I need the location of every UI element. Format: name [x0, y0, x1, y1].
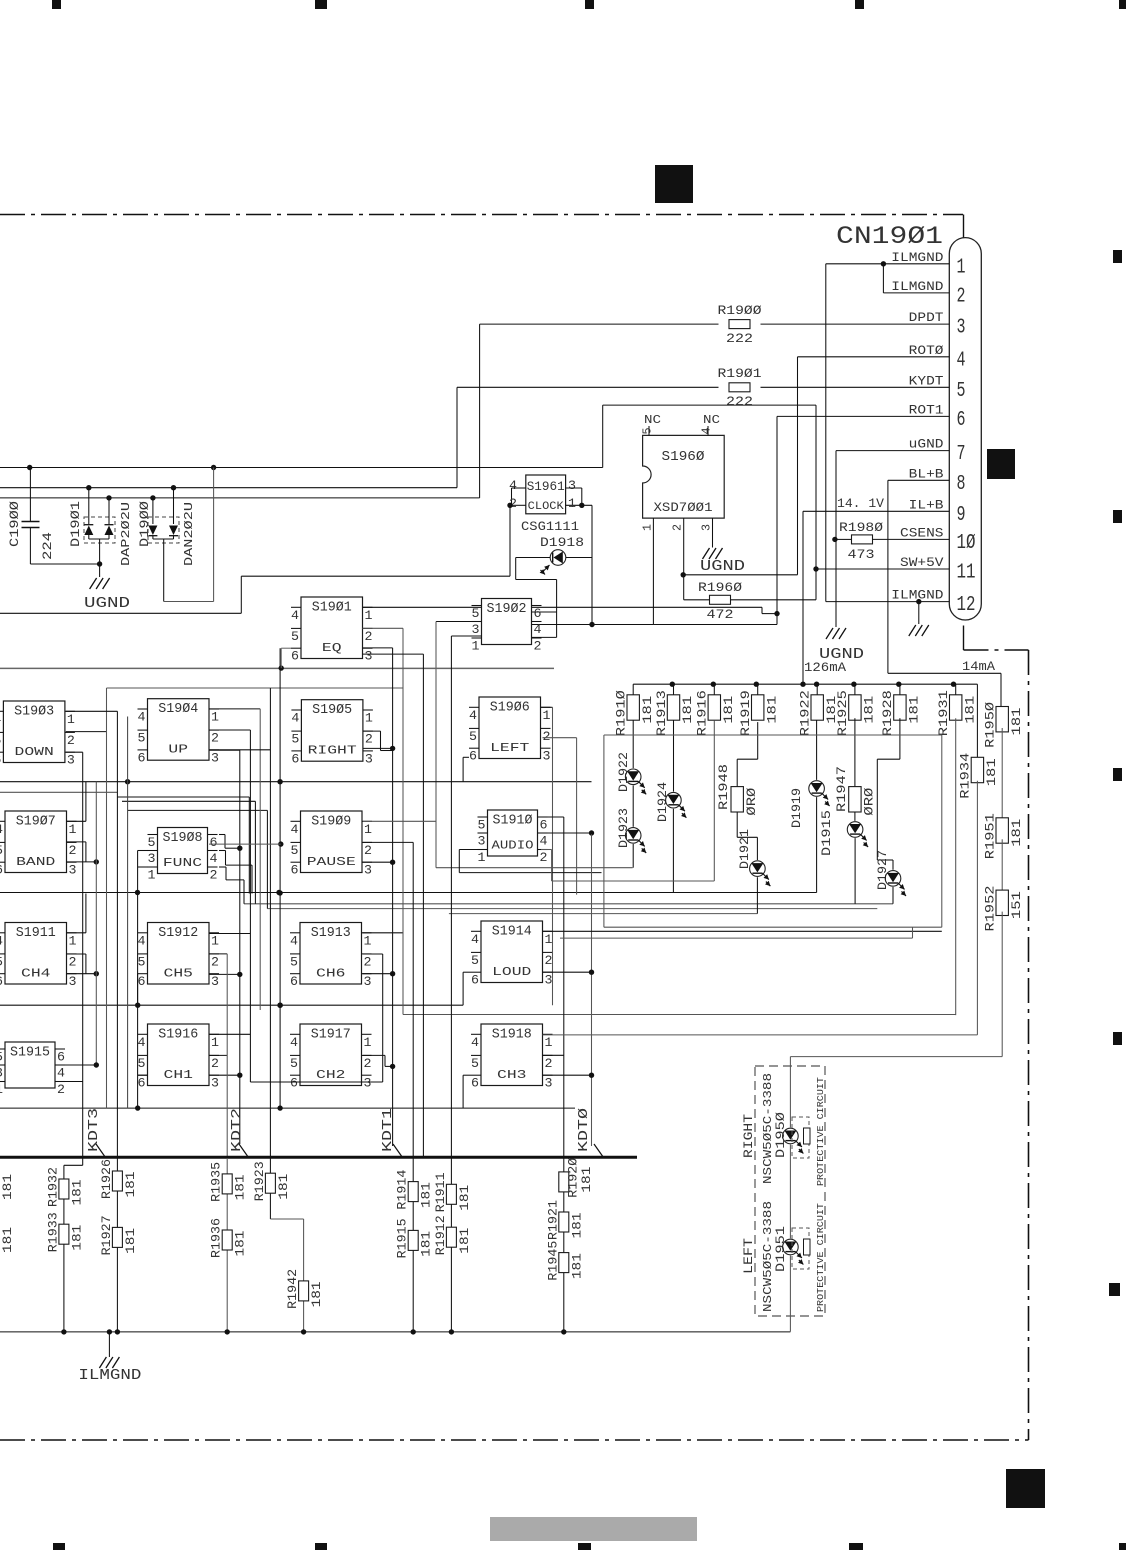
svg-text:S1914: S1914	[492, 925, 532, 940]
svg-text:3: 3	[478, 834, 486, 849]
svg-text:3: 3	[69, 863, 77, 878]
S1961 pin 2	[507, 496, 526, 511]
svg-text:5: 5	[291, 732, 299, 747]
svg-text:5: 5	[138, 954, 146, 969]
resistor R1911 (181)	[433, 1172, 472, 1212]
wire row rail y=913.6	[449, 913, 758, 915]
protective resistor (left)	[792, 1228, 810, 1269]
svg-text:R192Ø: R192Ø	[566, 1158, 581, 1198]
wire row rail y=688	[107, 687, 404, 689]
svg-text:R1928: R1928	[880, 690, 895, 736]
svg-text:4: 4	[290, 1035, 298, 1050]
svg-text:CH6: CH6	[316, 968, 346, 981]
svg-text:6: 6	[0, 863, 3, 878]
wire R1920/R1921/R1945 column	[561, 1158, 566, 1335]
svg-text:4: 4	[138, 1035, 146, 1050]
svg-text:3: 3	[700, 524, 714, 531]
svg-text:181: 181	[681, 696, 695, 724]
svg-text:1: 1	[0, 1082, 3, 1097]
ground UGND (top-left)	[84, 564, 130, 612]
CN1901 pin 5 (KYDT)	[909, 374, 966, 403]
S1961 pin 3	[566, 478, 582, 505]
wire S1914 pin1 rail	[543, 930, 942, 932]
resistor R1925 (181)	[835, 684, 876, 736]
wire column x=280.1	[209, 648, 283, 1108]
wire IL+B (pin 9) / 126mA feed	[803, 511, 949, 684]
svg-text:181: 181	[124, 1228, 138, 1254]
wire S1917 pin2 elbow	[363, 1055, 385, 1066]
wire S1907 pin2/pin3 to column	[67, 842, 99, 865]
svg-text:6: 6	[540, 818, 548, 833]
switch S1918 (CH3)	[471, 1024, 553, 1091]
svg-text:181: 181	[70, 1225, 84, 1251]
svg-text:2: 2	[671, 524, 685, 531]
svg-text:KDT2: KDT2	[230, 1108, 245, 1152]
diode pair D1900 (DAN202U)	[137, 468, 214, 602]
svg-text:R1945: R1945	[545, 1241, 560, 1281]
svg-text:ILMGND: ILMGND	[78, 1367, 141, 1384]
svg-text:1: 1	[211, 710, 219, 725]
resistor R1910 (181)	[614, 684, 655, 736]
svg-text:R1936: R1936	[209, 1218, 224, 1258]
switch S1902	[472, 599, 542, 654]
svg-text:5: 5	[957, 380, 966, 403]
svg-text:1: 1	[478, 850, 486, 865]
wire S1913 pin1 stub	[363, 932, 404, 934]
svg-text:R1916: R1916	[695, 690, 710, 736]
svg-text:IL+B: IL+B	[909, 498, 944, 512]
svg-text:R1933: R1933	[45, 1212, 60, 1252]
svg-text:CH2: CH2	[316, 1069, 346, 1082]
svg-text:R1912: R1912	[433, 1215, 448, 1255]
resistor R1923 (181)	[252, 1161, 291, 1201]
resistor R1945 (181)	[545, 1241, 584, 1281]
capacitor C1900 (224)	[7, 468, 100, 565]
svg-text:4: 4	[471, 1035, 479, 1050]
wire BL+B (pin 8) / 14mA feed	[888, 480, 1001, 706]
LED D1919	[789, 720, 830, 828]
svg-text:181: 181	[570, 1253, 584, 1279]
svg-text:R1915: R1915	[395, 1218, 410, 1258]
svg-text:D1919: D1919	[789, 788, 804, 828]
svg-text:PROTECTIVE CIRCUIT: PROTECTIVE CIRCUIT	[815, 1203, 826, 1312]
svg-text:6: 6	[957, 409, 966, 432]
svg-text:3: 3	[545, 1076, 553, 1091]
svg-text:2: 2	[365, 629, 373, 644]
wire S1910 pin1 rail	[459, 850, 601, 873]
svg-text:151: 151	[1010, 891, 1024, 919]
S1961 pin 1	[566, 496, 592, 511]
svg-text:R1914: R1914	[395, 1169, 410, 1209]
wire row rail y=1108.1	[0, 1105, 575, 1110]
wire column x=563.8 (S1910 pin6 to R1920)	[541, 817, 564, 1158]
wire R1923/R1942 column	[270, 1158, 306, 1335]
CN1901 pin 3 (DPDT)	[909, 311, 966, 340]
svg-text:5: 5	[472, 606, 480, 621]
svg-text:5: 5	[291, 629, 299, 644]
switch S1913 (CH6)	[290, 923, 372, 990]
wire row rail y=792.3	[0, 791, 117, 793]
svg-text:S1915: S1915	[10, 1046, 50, 1061]
svg-text:BL+B: BL+B	[909, 467, 944, 481]
wire LED frame loop	[560, 718, 956, 1015]
svg-text:LEFT: LEFT	[490, 742, 529, 755]
svg-text:D1918: D1918	[540, 535, 584, 550]
wire column x=96.3	[55, 782, 99, 1068]
keyboard data bus (heavy)	[0, 1156, 637, 1159]
switch S1908 (FUNC)	[148, 828, 218, 883]
wire column x=576.6	[543, 738, 577, 895]
svg-text:3: 3	[364, 974, 372, 989]
svg-text:S1961: S1961	[527, 479, 565, 494]
svg-text:S19Ø3: S19Ø3	[14, 705, 54, 720]
svg-text:S1913: S1913	[311, 926, 351, 941]
svg-text:R1927: R1927	[99, 1215, 114, 1255]
resistor R1914 (181)	[395, 1169, 434, 1209]
switch S1901 (EQ)	[291, 597, 373, 664]
svg-text:181: 181	[722, 696, 736, 724]
wire row rail y=668	[0, 648, 554, 671]
wire S1905 pin2 elbow	[363, 731, 393, 750]
svg-text:S1917: S1917	[311, 1028, 351, 1043]
LED D1915	[819, 810, 868, 904]
CN1901 pin 4 (ROT0)	[909, 344, 966, 373]
svg-text:6: 6	[291, 649, 299, 664]
wire column x=127.6	[127, 717, 129, 1109]
svg-text:S19Ø6: S19Ø6	[490, 701, 530, 716]
svg-text:ILMGND: ILMGND	[891, 280, 943, 294]
svg-text:181: 181	[1, 1227, 15, 1253]
svg-text:R1913: R1913	[654, 690, 669, 736]
svg-text:KDT3: KDT3	[87, 1108, 102, 1152]
svg-text:4: 4	[0, 822, 3, 837]
svg-text:D19ØØ: D19ØØ	[137, 501, 152, 547]
svg-text:14. 1V: 14. 1V	[837, 497, 885, 511]
svg-text:S191Ø: S191Ø	[493, 814, 533, 829]
wire net DPDT (pin3) to left rail	[0, 324, 949, 500]
wire S1909 pin1 to D1923 rail	[363, 821, 633, 867]
svg-text:224: 224	[40, 532, 55, 560]
svg-text:C19ØØ: C19ØØ	[7, 501, 22, 547]
svg-text:CLOCK: CLOCK	[528, 501, 564, 513]
resistor R1913 (181)	[654, 684, 695, 736]
svg-text:ROT1: ROT1	[909, 403, 944, 417]
resistor R1916 (181)	[695, 684, 736, 736]
switch S1907 (BAND)	[0, 811, 77, 878]
svg-text:3: 3	[0, 1066, 3, 1081]
ground ILMGND (pin 12)	[909, 602, 929, 636]
switch S1915	[0, 1042, 65, 1097]
svg-text:2: 2	[69, 843, 77, 858]
svg-text:1: 1	[365, 608, 373, 623]
wire row rail y=1005.2	[0, 1003, 463, 1008]
resistor R1960 (472)	[684, 569, 816, 622]
diode pair D1901 (DAP202U)	[68, 488, 133, 567]
svg-text:6: 6	[0, 974, 3, 989]
svg-text:12: 12	[957, 594, 976, 617]
svg-text:181: 181	[641, 696, 655, 724]
svg-text:DAP2Ø2U: DAP2Ø2U	[119, 502, 133, 566]
resistor R1928 (181)	[880, 684, 921, 736]
svg-text:R1935: R1935	[209, 1162, 224, 1202]
svg-text:2: 2	[534, 639, 542, 654]
wire column x=414.1 (to R1914)	[363, 842, 413, 1158]
switch S1916 (CH1)	[138, 1024, 220, 1091]
svg-text:2: 2	[67, 733, 75, 748]
svg-text:1: 1	[568, 496, 576, 511]
connector CN1901	[836, 222, 981, 620]
wire column x=137.6	[138, 851, 148, 1109]
S1960 pin 5 (NC)	[641, 414, 662, 435]
svg-text:1: 1	[543, 708, 551, 723]
resistor R1980 (473)	[836, 520, 949, 562]
svg-text:S19Ø1: S19Ø1	[312, 601, 352, 616]
svg-text:KDTØ: KDTØ	[577, 1108, 592, 1152]
svg-text:6: 6	[210, 835, 218, 850]
svg-text:UGND: UGND	[700, 559, 745, 575]
resistor R1950 (181)	[983, 702, 1024, 818]
svg-text:6: 6	[469, 749, 477, 764]
svg-text:S1912: S1912	[158, 926, 198, 941]
svg-text:R1952: R1952	[983, 886, 998, 932]
svg-text:126mA: 126mA	[804, 661, 847, 675]
CN1901 pin 10 (CSENS)	[900, 526, 976, 555]
svg-text:222: 222	[726, 394, 753, 409]
svg-text:NC: NC	[644, 414, 661, 427]
switch S1904 (UP)	[138, 699, 220, 766]
svg-text:5: 5	[478, 818, 486, 833]
svg-text:S19Ø7: S19Ø7	[16, 815, 56, 830]
LED D1923	[616, 785, 646, 867]
LED D1922	[616, 720, 646, 794]
svg-text:3: 3	[365, 649, 373, 664]
svg-text:181: 181	[234, 1231, 248, 1257]
svg-text:181: 181	[570, 1213, 584, 1239]
LED D1918	[516, 535, 592, 637]
svg-text:3: 3	[957, 317, 966, 340]
wire R1916 branch (to S1910 pin2)	[541, 720, 714, 881]
wire S1901 pin1 to ROT1 net	[363, 607, 778, 613]
svg-text:2: 2	[211, 731, 219, 746]
wire R1932/R1933 column	[61, 1158, 82, 1335]
wire column x=106.5	[66, 688, 107, 1108]
svg-text:R1921: R1921	[545, 1200, 560, 1240]
wire column x=552.5	[541, 707, 553, 1005]
svg-text:4: 4	[700, 428, 714, 435]
svg-text:4: 4	[291, 822, 299, 837]
svg-text:D1921: D1921	[737, 829, 752, 869]
svg-text:181: 181	[985, 758, 999, 786]
svg-text:2: 2	[211, 954, 219, 969]
svg-text:D19Ø1: D19Ø1	[68, 501, 83, 547]
wire S1902 pin3 to column	[436, 622, 482, 868]
svg-text:181: 181	[963, 696, 977, 724]
resistor R1951 (181)	[983, 813, 1024, 890]
svg-text:6: 6	[138, 974, 146, 989]
svg-text:1Ø: 1Ø	[957, 532, 976, 555]
svg-text:5: 5	[138, 731, 146, 746]
S1960 pin 3 to ground	[700, 518, 746, 575]
svg-text:3: 3	[211, 750, 219, 765]
resistor R1926 (181)	[99, 1159, 138, 1199]
wire column x=227.2 (to R1935)	[209, 954, 227, 1158]
svg-text:4: 4	[138, 933, 146, 948]
svg-text:1: 1	[69, 933, 77, 948]
net label KDT0	[577, 1108, 604, 1158]
svg-text:R1925: R1925	[835, 690, 850, 736]
svg-text:R1932: R1932	[45, 1167, 60, 1207]
svg-text:5: 5	[0, 843, 3, 858]
wire LED driver chain	[790, 1057, 1002, 1128]
svg-text:181: 181	[458, 1228, 472, 1254]
svg-text:3: 3	[364, 1076, 372, 1091]
svg-text:6: 6	[57, 1050, 65, 1065]
svg-text:RIGHT: RIGHT	[308, 745, 357, 758]
svg-text:6: 6	[534, 606, 542, 621]
svg-text:D1924: D1924	[655, 782, 670, 822]
svg-text:R1922: R1922	[798, 690, 813, 736]
svg-text:6: 6	[138, 750, 146, 765]
svg-text:S196Ø: S196Ø	[662, 449, 705, 465]
wire column KDT2 x=239.8	[209, 750, 243, 1144]
svg-text:1: 1	[364, 933, 372, 948]
svg-text:BAND: BAND	[16, 856, 55, 869]
switch S1909 (PAUSE)	[291, 811, 373, 878]
wire FUNC row link 1	[117, 797, 249, 894]
svg-text:S1916: S1916	[158, 1028, 198, 1043]
wire column x=117.4 (to R1926)	[66, 711, 118, 1157]
svg-text:4: 4	[0, 712, 2, 727]
wire S1914 pin6 elbow	[463, 972, 471, 1005]
S1960 pin 2	[671, 518, 686, 600]
svg-text:3: 3	[365, 751, 373, 766]
LED D1927	[875, 718, 906, 896]
svg-text:181: 181	[310, 1281, 324, 1307]
svg-text:181: 181	[1010, 708, 1024, 736]
wire S1904 pin3 to KDT2 column	[209, 749, 240, 751]
svg-text:DOWN: DOWN	[15, 746, 54, 759]
svg-text:6: 6	[291, 863, 299, 878]
wire S1907 pin1 riser	[67, 782, 86, 822]
svg-text:UGND: UGND	[84, 596, 130, 612]
svg-text:CH4: CH4	[21, 968, 51, 981]
wire D1951 to ILMGND bus	[789, 1256, 791, 1332]
svg-text:181: 181	[420, 1231, 434, 1257]
wire ILMGND pins 1-2-12	[826, 261, 950, 604]
svg-text:1: 1	[472, 639, 480, 654]
svg-text:S1918: S1918	[492, 1028, 532, 1043]
svg-text:6: 6	[138, 1076, 146, 1091]
wire row rail y=908.6	[267, 908, 877, 910]
svg-text:1: 1	[545, 932, 553, 947]
svg-text:UP: UP	[168, 744, 188, 757]
svg-text:14mA: 14mA	[962, 660, 996, 674]
wire column KDT1 x=392.6	[363, 648, 396, 1146]
LED D1924	[655, 720, 686, 892]
resistor R1919 (181)	[738, 684, 779, 736]
svg-text:181: 181	[234, 1174, 248, 1200]
resistor R1934 (181)	[958, 684, 999, 1035]
svg-text:4: 4	[291, 608, 299, 623]
svg-text:1: 1	[545, 1035, 553, 1050]
svg-text:8: 8	[957, 473, 966, 496]
svg-text:1: 1	[148, 868, 156, 883]
svg-text:R1923: R1923	[252, 1161, 267, 1201]
svg-text:181: 181	[908, 696, 922, 724]
svg-text:3: 3	[67, 753, 75, 768]
svg-text:181: 181	[70, 1180, 84, 1206]
resistor R1920 (181)	[559, 1158, 594, 1198]
svg-text:181: 181	[124, 1172, 138, 1198]
wire column x=250.4	[209, 730, 383, 1082]
net label KDT2	[230, 1108, 249, 1158]
svg-text:2: 2	[364, 954, 372, 969]
svg-text:2: 2	[365, 732, 373, 747]
svg-text:5: 5	[148, 835, 156, 850]
svg-text:4: 4	[469, 708, 477, 723]
svg-text:5: 5	[290, 1056, 298, 1071]
svg-text:2: 2	[545, 953, 553, 968]
svg-text:CH1: CH1	[164, 1069, 194, 1082]
svg-text:R198Ø: R198Ø	[839, 520, 883, 535]
switch S1905 (RIGHT)	[291, 700, 373, 767]
svg-text:R1926: R1926	[99, 1159, 114, 1199]
wire column x=423.4	[363, 654, 424, 1157]
svg-text:uGND: uGND	[909, 438, 944, 452]
svg-text:5: 5	[0, 733, 1, 748]
svg-text:PAUSE: PAUSE	[307, 856, 356, 869]
switch S1903 (DOWN)	[0, 701, 75, 768]
svg-text:181: 181	[580, 1167, 594, 1193]
switch S1912 (CH5)	[138, 923, 220, 990]
wire column KDT0 x=591.5	[541, 830, 594, 1146]
wire S1911 pin1 riser	[67, 894, 86, 933]
ground UGND (pin 7)	[819, 628, 864, 663]
svg-text:4: 4	[540, 834, 548, 849]
net label KDT3	[87, 1108, 106, 1158]
svg-text:XSD7ØØ1: XSD7ØØ1	[654, 501, 713, 515]
svg-text:S19Ø2: S19Ø2	[487, 602, 527, 617]
IC S1961 (CLOCK, CSG1111)	[521, 475, 579, 534]
svg-text:11: 11	[957, 562, 976, 585]
svg-text:R195Ø: R195Ø	[983, 702, 998, 748]
S1960 pin 4 (NC)	[700, 414, 721, 435]
wire S1918 pin6 elbow	[463, 1075, 471, 1108]
wire column KDT3 x=82.7	[55, 752, 83, 1158]
svg-text:R1934: R1934	[958, 752, 973, 798]
svg-text:5: 5	[291, 843, 299, 858]
wire uGND (pin 7)	[832, 451, 949, 627]
resistor R1948 (0R0)	[716, 722, 759, 816]
wire net SW+5V (pin11)	[0, 405, 949, 572]
svg-text:1: 1	[957, 256, 966, 279]
wire column x=260.2 (S1904 pin1)	[209, 709, 260, 1010]
resistor R1915 (181)	[395, 1218, 434, 1258]
ground ILMGND (bottom)	[78, 1332, 141, 1384]
svg-text:5: 5	[290, 954, 298, 969]
svg-text:ØRØ: ØRØ	[863, 787, 877, 816]
wire R1911/R1912 column	[449, 1158, 454, 1335]
svg-text:1: 1	[211, 933, 219, 948]
IC S1960 (XSD7001)	[643, 435, 725, 518]
resistor R1947 (0R0)	[834, 718, 877, 815]
svg-text:2: 2	[543, 729, 551, 744]
svg-text:181: 181	[1, 1174, 15, 1200]
wire S1916 pin2 stub	[209, 1054, 227, 1056]
wire D1950 to D1951	[789, 1145, 791, 1239]
svg-text:9: 9	[957, 504, 966, 527]
svg-text:181: 181	[277, 1174, 291, 1200]
